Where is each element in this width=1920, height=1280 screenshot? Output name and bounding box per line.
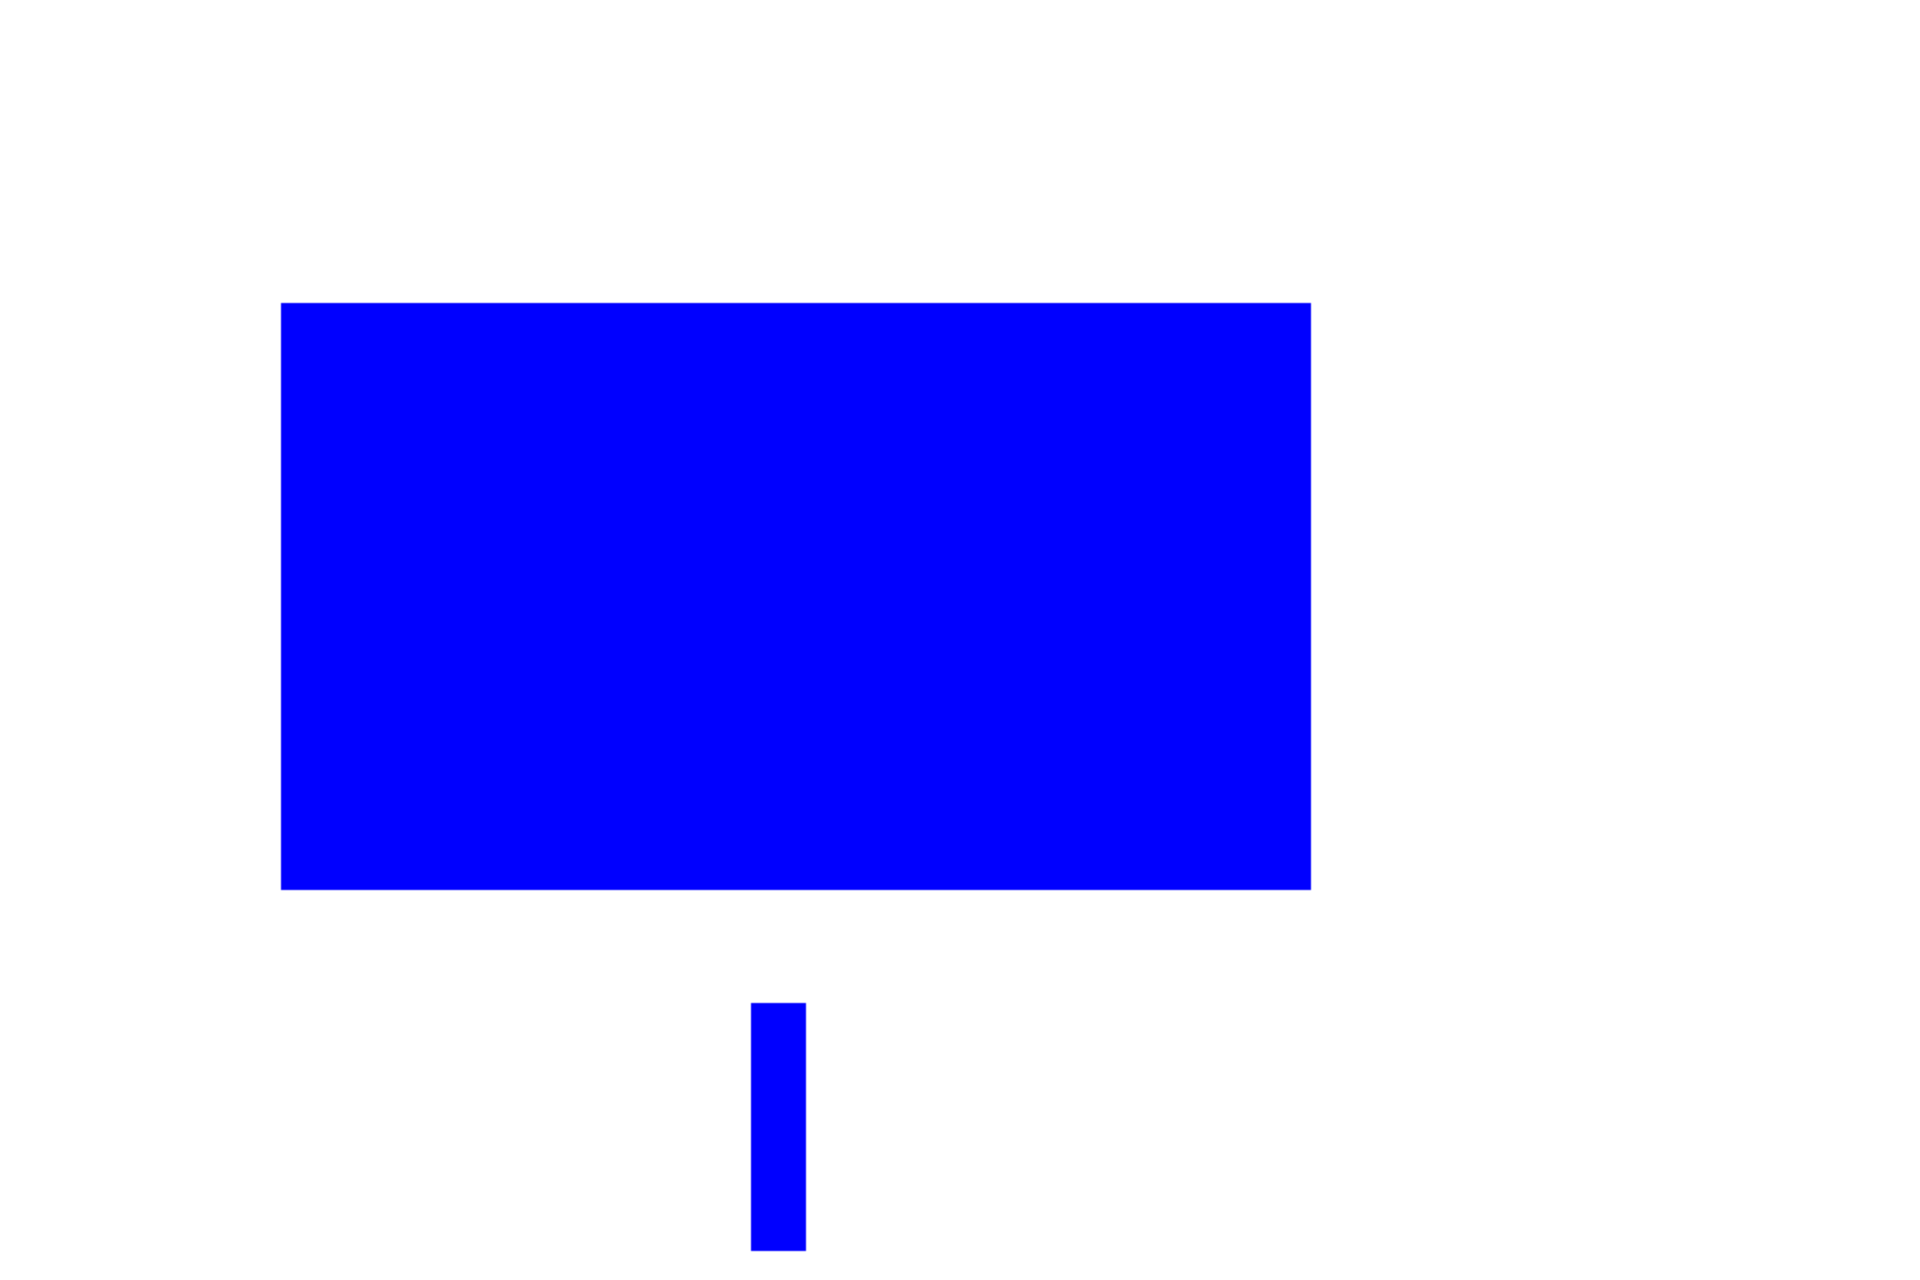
small blue bar	[751, 1003, 806, 1251]
large blue rectangle	[281, 303, 1311, 890]
